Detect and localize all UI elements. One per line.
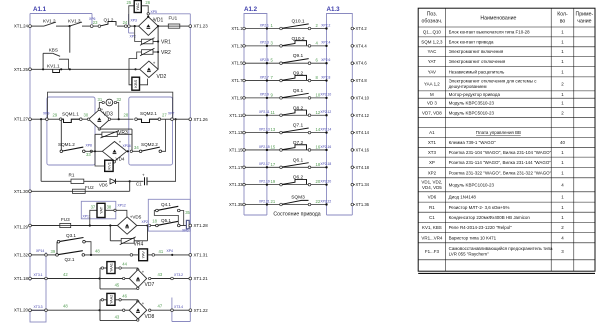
svg-text:33: 33	[86, 152, 91, 157]
svg-text:39: 39	[51, 249, 56, 254]
svg-text:чание: чание	[577, 19, 591, 25]
svg-text:XT1.27: XT1.27	[14, 117, 29, 122]
svg-text:Q8.2: Q8.2	[293, 105, 304, 111]
svg-text:Состояние привода: Состояние привода	[273, 212, 320, 218]
svg-text:SQM2.1: SQM2.1	[140, 111, 157, 116]
svg-text:YAA 1,2: YAA 1,2	[424, 82, 440, 87]
svg-text:VR1: VR1	[161, 40, 171, 46]
svg-text:VD 3: VD 3	[427, 101, 437, 106]
svg-text:A1.1: A1.1	[33, 6, 47, 13]
svg-text:Конденсатор 220мкФх400В НВ Jam: Конденсатор 220мкФх400В НВ Jamicon	[449, 215, 531, 220]
svg-text:42: 42	[63, 272, 68, 277]
svg-text:24: 24	[123, 20, 128, 25]
svg-text:LVR 055 "Raychem": LVR 055 "Raychem"	[449, 251, 489, 256]
svg-text:40: 40	[560, 140, 565, 145]
svg-text:43: 43	[115, 314, 120, 319]
svg-text:Варистор типа 10 К471: Варистор типа 10 К471	[449, 235, 497, 240]
svg-text:XP2.9: XP2.9	[260, 93, 269, 97]
svg-text:YAT: YAT	[98, 206, 103, 214]
svg-text:XT1.31: XT1.31	[194, 253, 209, 258]
svg-text:15: 15	[271, 144, 276, 149]
svg-text:XP2.6: XP2.6	[321, 58, 330, 62]
svg-text:XT1.20: XT1.20	[14, 308, 29, 313]
svg-text:XT4.12: XT4.12	[356, 113, 370, 118]
svg-text:XT3: XT3	[428, 150, 437, 155]
svg-text:28: 28	[124, 113, 129, 118]
svg-text:Модуль KBPC3510-23: Модуль KBPC3510-23	[449, 101, 495, 106]
svg-text:Мотор-редуктор привода: Мотор-редуктор привода	[449, 92, 501, 97]
svg-text:Блок контакт привода: Блок контакт привода	[449, 39, 494, 44]
svg-text:XT1.33: XT1.33	[229, 182, 243, 187]
svg-text:XP2.21: XP2.21	[259, 199, 270, 203]
svg-text:XP16: XP16	[123, 144, 131, 148]
svg-text:+: +	[142, 269, 145, 274]
svg-text:Приме-: Приме-	[576, 12, 594, 18]
svg-text:XT1.18: XT1.18	[14, 276, 29, 281]
svg-text:XP2.1: XP2.1	[260, 23, 269, 27]
svg-text:41: 41	[159, 249, 164, 254]
svg-text:46: 46	[122, 293, 127, 298]
svg-text:Блок контакт выключателя типа: Блок контакт выключателя типа F10-28	[449, 30, 531, 35]
svg-text:XP6: XP6	[182, 229, 189, 233]
svg-text:XT4.8: XT4.8	[356, 78, 368, 83]
svg-text:XT1.15: XT1.15	[229, 147, 243, 152]
svg-text:XP2.8: XP2.8	[321, 75, 330, 79]
svg-text:SQM1.1: SQM1.1	[62, 111, 79, 116]
svg-text:KV1: KV1	[106, 161, 111, 169]
svg-text:XP: XP	[429, 160, 435, 165]
svg-text:XP2: XP2	[142, 220, 149, 224]
svg-text:XP2.18: XP2.18	[320, 162, 331, 166]
svg-text:Q8.1: Q8.1	[293, 88, 304, 94]
svg-text:17: 17	[271, 162, 276, 167]
svg-text:VD7: VD7	[145, 282, 155, 288]
svg-text:KV1, KBS: KV1, KBS	[422, 225, 442, 230]
svg-text:Клемма 739-1 "WAGO": Клемма 739-1 "WAGO"	[449, 140, 496, 145]
svg-text:XP14: XP14	[36, 249, 44, 253]
svg-text:27: 27	[162, 113, 167, 118]
svg-text:XT1.26: XT1.26	[194, 117, 209, 122]
svg-text:F1...F3: F1...F3	[425, 249, 440, 254]
svg-text:Кол-: Кол-	[557, 12, 568, 18]
svg-text:Q7.1: Q7.1	[293, 123, 304, 129]
svg-text:XP2.4: XP2.4	[321, 41, 330, 45]
svg-text:Самовосстанавливающийся предох: Самовосстанавливающийся предохранитель т…	[449, 245, 553, 251]
svg-text:Розетка 231-322 "WAGO", Вилка: Розетка 231-322 "WAGO", Вилка 231-322 "W…	[449, 170, 552, 175]
svg-text:34: 34	[134, 145, 139, 150]
svg-text:44: 44	[122, 262, 127, 267]
svg-text:35: 35	[185, 210, 190, 215]
svg-text:Реле R4-2014-23-1220 "Relpol": Реле R4-2014-23-1220 "Relpol"	[449, 225, 513, 230]
svg-text:48: 48	[63, 304, 68, 309]
svg-text:VD3: VD3	[103, 112, 113, 118]
svg-text:XP2.19: XP2.19	[259, 179, 270, 183]
svg-text:YAV: YAV	[141, 251, 146, 259]
svg-text:KBS: KBS	[49, 47, 58, 52]
svg-text:Наименование: Наименование	[480, 16, 516, 22]
svg-text:XT1.7: XT1.7	[231, 78, 243, 83]
svg-text:FU3: FU3	[61, 217, 70, 222]
svg-text:R1: R1	[69, 173, 75, 178]
svg-text:XP2.16: XP2.16	[320, 145, 331, 149]
svg-text:XP2.22: XP2.22	[320, 199, 331, 203]
svg-text:30: 30	[84, 113, 89, 118]
svg-text:18: 18	[152, 218, 157, 223]
svg-text:+: +	[142, 173, 145, 178]
svg-text:SQM2.2: SQM2.2	[141, 142, 158, 147]
svg-text:XP8: XP8	[86, 143, 93, 147]
svg-text:Поз.: Поз.	[427, 12, 437, 18]
svg-text:Q1...Q10: Q1...Q10	[423, 30, 442, 35]
svg-text:XT4.10: XT4.10	[356, 95, 370, 100]
svg-text:45: 45	[115, 283, 120, 288]
svg-text:XT1.3: XT1.3	[231, 43, 243, 48]
svg-text:VD8: VD8	[145, 314, 155, 320]
svg-text:SQM1.2: SQM1.2	[58, 142, 75, 147]
svg-text:XT3.4: XT3.4	[174, 305, 183, 309]
svg-text:YAA1: YAA1	[109, 263, 113, 272]
svg-text:11: 11	[271, 110, 276, 115]
svg-text:XT3.1: XT3.1	[34, 273, 43, 277]
svg-text:XT4.16: XT4.16	[356, 147, 370, 152]
svg-text:XT1.17: XT1.17	[229, 165, 243, 170]
svg-text:VD6: VD6	[99, 183, 108, 188]
svg-text:XT1.23: XT1.23	[194, 24, 209, 29]
svg-text:XP9: XP9	[43, 112, 50, 116]
svg-text:дешунтированием: дешунтированием	[449, 84, 487, 89]
svg-text:во: во	[560, 19, 566, 25]
svg-text:Q5.1: Q5.1	[161, 218, 171, 223]
svg-text:YAV: YAV	[428, 69, 436, 74]
svg-text:XT1.22: XT1.22	[194, 308, 209, 313]
svg-text:XT1.30: XT1.30	[14, 189, 29, 194]
svg-text:XP2.17: XP2.17	[259, 162, 270, 166]
svg-text:XT1.34: XT1.34	[356, 182, 370, 187]
svg-text:KV1.1: KV1.1	[47, 63, 60, 68]
svg-text:XT4.4: XT4.4	[356, 43, 368, 48]
svg-text:SQM3: SQM3	[291, 195, 305, 201]
svg-text:VD7, VD8: VD7, VD8	[422, 110, 442, 115]
svg-text:Диод 1N4148: Диод 1N4148	[449, 195, 477, 200]
svg-text:XP2.15: XP2.15	[259, 145, 270, 149]
svg-text:YAA2: YAA2	[109, 295, 113, 304]
svg-text:Q4.1: Q4.1	[161, 202, 171, 207]
svg-text:KBS: KBS	[133, 79, 138, 87]
svg-text:47: 47	[158, 304, 163, 309]
svg-text:Q3.1: Q3.1	[66, 233, 76, 238]
svg-text:XP2.2: XP2.2	[321, 23, 330, 27]
svg-text:FU1: FU1	[169, 16, 178, 21]
svg-text:26: 26	[145, 0, 150, 5]
svg-text:13: 13	[271, 127, 276, 132]
svg-text:19: 19	[271, 179, 276, 184]
svg-text:A1.3: A1.3	[327, 6, 341, 13]
svg-text:XP2.5: XP2.5	[260, 58, 269, 62]
svg-text:обознач.: обознач.	[421, 19, 442, 25]
svg-text:XT1.13: XT1.13	[229, 130, 243, 135]
svg-text:XT1.5: XT1.5	[231, 61, 243, 66]
svg-text:XT4.14: XT4.14	[356, 130, 370, 135]
svg-text:32: 32	[117, 97, 122, 102]
svg-text:Электромагнит включения: Электромагнит включения	[449, 49, 504, 54]
svg-text:XT1.9: XT1.9	[231, 95, 243, 100]
svg-text:VR3: VR3	[118, 130, 128, 136]
svg-text:XT1.1: XT1.1	[231, 26, 243, 31]
svg-text:XT3.2: XT3.2	[174, 273, 183, 277]
svg-text:37: 37	[91, 205, 96, 210]
svg-text:XT1: XT1	[428, 140, 437, 145]
svg-text:XP3: XP3	[131, 19, 138, 23]
svg-text:R1: R1	[429, 205, 435, 210]
svg-text:YAC: YAC	[135, 2, 140, 10]
svg-text:Модуль KBPC1010-23: Модуль KBPC1010-23	[449, 182, 495, 187]
svg-text:YAT: YAT	[428, 59, 436, 64]
svg-text:FU2: FU2	[85, 185, 94, 190]
svg-text:C1: C1	[429, 215, 435, 220]
svg-text:XT1.28: XT1.28	[194, 223, 209, 228]
svg-text:+: +	[152, 17, 155, 22]
svg-text:XT1.29: XT1.29	[14, 225, 29, 230]
svg-text:XP2.13: XP2.13	[259, 127, 270, 131]
svg-text:XP2.14: XP2.14	[320, 127, 331, 131]
svg-text:Q2.1: Q2.1	[65, 257, 75, 262]
svg-text:+: +	[153, 61, 156, 66]
svg-text:Q7.2: Q7.2	[293, 140, 304, 146]
svg-text:VD4: VD4	[116, 156, 125, 161]
svg-text:Розетка 231-114 "WAGO", Вилка: Розетка 231-114 "WAGO", Вилка 231-144 "W…	[449, 160, 552, 165]
svg-text:Q6.2: Q6.2	[293, 175, 304, 181]
svg-text:VR4: VR4	[134, 242, 144, 248]
svg-text:XT4.18: XT4.18	[356, 165, 370, 170]
svg-text:XP6: XP6	[89, 17, 96, 21]
svg-text:SQM 1,2,3: SQM 1,2,3	[421, 39, 443, 44]
svg-text:A1.2: A1.2	[244, 6, 258, 13]
svg-text:XP2.12: XP2.12	[320, 110, 331, 114]
svg-text:Q9.1: Q9.1	[293, 53, 304, 59]
svg-text:VD4, VD5: VD4, VD5	[422, 185, 442, 190]
svg-text:Q9.2: Q9.2	[293, 71, 304, 77]
svg-text:XT1.21: XT1.21	[194, 276, 209, 281]
svg-text:XT1.32: XT1.32	[14, 252, 29, 257]
svg-text:YAC: YAC	[428, 49, 438, 54]
svg-text:XT3.3: XT3.3	[34, 305, 43, 309]
svg-text:XP2.3: XP2.3	[260, 41, 269, 45]
svg-text:VD6: VD6	[428, 195, 437, 200]
svg-text:38: 38	[107, 205, 112, 210]
svg-text:XP2.7: XP2.7	[260, 75, 269, 79]
svg-text:XT1.36: XT1.36	[356, 202, 370, 207]
svg-text:XP7: XP7	[168, 112, 175, 116]
svg-text:XT1.25: XT1.25	[14, 67, 29, 72]
svg-text:Резистор МЛТ-2- 3,6 кОм+5%: Резистор МЛТ-2- 3,6 кОм+5%	[449, 205, 510, 210]
svg-text:XP12: XP12	[118, 203, 126, 207]
svg-text:XT4.6: XT4.6	[356, 61, 368, 66]
svg-text:XP2.11: XP2.11	[259, 110, 270, 114]
svg-text:M: M	[108, 101, 111, 105]
svg-text:Электромагнит отключения: Электромагнит отключения	[449, 59, 506, 64]
svg-text:21: 21	[271, 199, 276, 204]
svg-text:C1: C1	[136, 182, 142, 187]
svg-text:Q10.2: Q10.2	[291, 36, 304, 42]
svg-text:Плата управления ВВ: Плата управления ВВ	[476, 130, 521, 135]
svg-text:48: 48	[95, 249, 100, 254]
svg-text:XT1.11: XT1.11	[229, 113, 243, 118]
svg-text:Q10.1: Q10.1	[291, 19, 304, 25]
svg-text:M: M	[430, 92, 434, 97]
svg-text:VR1...VR4: VR1...VR4	[421, 235, 442, 240]
svg-text:XT1.24: XT1.24	[14, 24, 29, 29]
svg-text:Q6.1: Q6.1	[293, 157, 304, 163]
svg-text:XT4.2: XT4.2	[356, 26, 368, 31]
svg-text:XP2: XP2	[428, 170, 437, 175]
svg-text:Розетка 231-104 "WAGO", Вилка: Розетка 231-104 "WAGO", Вилка 231-104 "W…	[449, 150, 552, 155]
svg-text:29: 29	[53, 113, 58, 118]
svg-text:A1: A1	[429, 130, 435, 135]
svg-text:VR2: VR2	[161, 50, 171, 56]
svg-text:+VD5: +VD5	[130, 214, 142, 219]
svg-text:+: +	[142, 301, 145, 306]
svg-text:XP5: XP5	[151, 10, 158, 14]
svg-text:VD2: VD2	[157, 74, 167, 80]
svg-text:XP2.10: XP2.10	[320, 93, 331, 97]
svg-text:XP4: XP4	[167, 249, 174, 253]
svg-text:XP2.20: XP2.20	[320, 179, 331, 183]
svg-text:Независимый расцепитель: Независимый расцепитель	[449, 68, 505, 74]
svg-text:43: 43	[158, 272, 163, 277]
svg-text:Модуль KBPC5010-23: Модуль KBPC5010-23	[449, 110, 495, 115]
svg-text:31: 31	[98, 97, 103, 102]
svg-text:25: 25	[127, 0, 132, 5]
svg-text:XT1.35: XT1.35	[229, 202, 243, 207]
